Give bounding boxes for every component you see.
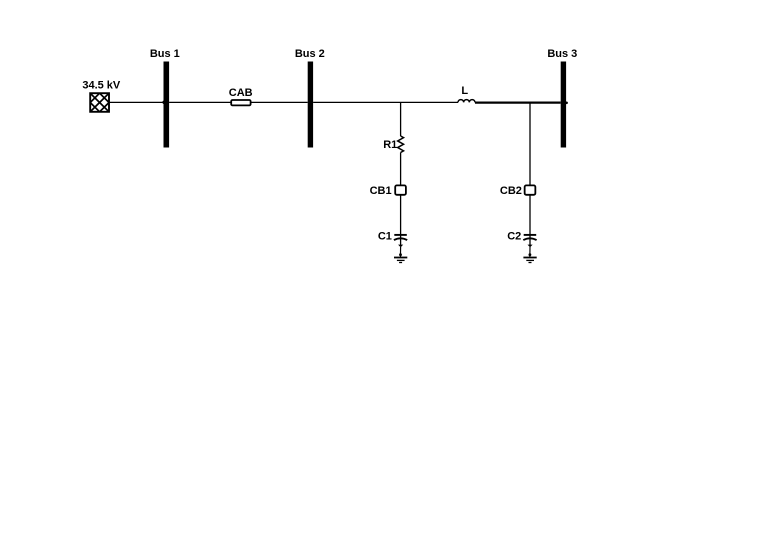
ground C1 <box>394 258 407 263</box>
svg-text:C2: C2 <box>507 231 521 243</box>
wire arrow to dot <box>529 247 531 254</box>
cable CAB <box>231 100 250 105</box>
bus Bus 1 <box>164 62 170 148</box>
junction dot at Bus 3 <box>565 102 568 105</box>
wire L to Bus 3 (branch junction at x=530) <box>475 101 561 103</box>
junction dot above ground C2 <box>529 253 532 256</box>
svg-text:L: L <box>461 85 468 97</box>
svg-text:34.5 kV: 34.5 kV <box>82 80 121 92</box>
wire Bus 2 to inductor L (branch junction at x=400.6) <box>313 101 458 103</box>
svg-text:CAB: CAB <box>229 87 253 99</box>
bus Bus 3 <box>561 62 566 148</box>
capacitor C2 <box>523 235 536 240</box>
breaker CB2 <box>525 185 536 194</box>
junction dot at Bus 1 <box>162 101 166 105</box>
wire branch 1 from main line to R1 <box>400 102 402 136</box>
wire Bus 1 to CAB <box>169 101 231 103</box>
svg-text:C1: C1 <box>378 231 392 243</box>
wire CB1 to C1 <box>400 195 402 235</box>
wire R1 to CB1 <box>400 153 402 186</box>
inductor L <box>458 100 475 103</box>
svg-text:Bus 3: Bus 3 <box>547 48 577 60</box>
resistor R1 <box>398 136 404 153</box>
junction dot above ground C1 <box>399 253 402 256</box>
svg-text:CB2: CB2 <box>500 185 522 197</box>
wire dot to ground C1 <box>400 256 402 258</box>
breaker CB1 <box>395 185 406 194</box>
wire C1 to arrow <box>400 235 402 245</box>
source / grid symbol <box>90 93 109 112</box>
arrow on C1 branch <box>398 245 403 248</box>
wire CAB to Bus 2 <box>251 101 308 103</box>
svg-text:CB1: CB1 <box>370 185 392 197</box>
svg-text:R1: R1 <box>383 139 397 151</box>
svg-text:Bus 2: Bus 2 <box>295 48 325 60</box>
wire source to Bus 1 <box>109 101 164 103</box>
wire CB2 to C2 <box>529 195 531 235</box>
bus Bus 2 <box>308 62 313 148</box>
wire arrow to dot <box>400 247 402 254</box>
wire C2 to arrow <box>529 235 531 245</box>
wire branch 2 from main line to CB2 <box>529 103 531 186</box>
svg-text:Bus 1: Bus 1 <box>150 48 180 60</box>
ground C2 <box>523 258 536 263</box>
arrow on C2 branch <box>528 245 533 248</box>
capacitor C1 <box>394 235 407 240</box>
wire dot to ground C2 <box>529 256 531 258</box>
